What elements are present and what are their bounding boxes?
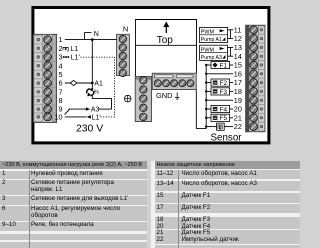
Top arrow [163, 22, 169, 34]
dashed tap symbol terminal 3 [63, 56, 69, 58]
terminal numbers 11-22 [234, 25, 242, 131]
wires PWM A3 to 13/14 [228, 47, 234, 56]
svg-text:3: 3 [59, 53, 63, 62]
svg-text:Pump A1: Pump A1 [201, 37, 222, 43]
label GND [156, 91, 179, 100]
terminal block X1 (left, terminals 1-10) [33, 34, 56, 122]
svg-text:22: 22 [234, 122, 242, 131]
svg-text:GND: GND [156, 91, 172, 100]
sensor box F3 [205, 88, 233, 96]
wire terminal 16 [205, 73, 233, 75]
wire terminal 10 [65, 116, 87, 118]
svg-text:11: 11 [234, 25, 242, 34]
sensor ground bus [196, 65, 206, 129]
svg-text:21: 21 [234, 113, 242, 122]
wire terminal 9 to A3 [69, 108, 87, 110]
wire pump A1 to A3 rail [92, 96, 111, 109]
svg-text:20: 20 [234, 105, 242, 114]
terminal block X2 (right, terminals 11-22) [246, 25, 265, 132]
label L1' [71, 55, 80, 62]
wire terminal 6 [65, 82, 93, 84]
enclosure frame [33, 8, 269, 143]
svg-text:N: N [123, 25, 128, 34]
svg-text:7: 7 [59, 87, 63, 96]
svg-text:PWM: PWM [201, 30, 215, 36]
svg-text:1: 1 [59, 35, 63, 44]
wire N drop to pump A1 [91, 40, 93, 89]
sensor box F5 [205, 114, 233, 122]
label Sensor [211, 132, 243, 143]
pump A1 symbol [87, 88, 94, 97]
junction dot [91, 82, 94, 85]
svg-text:19: 19 [234, 96, 242, 105]
svg-text:230 V: 230 V [76, 124, 103, 135]
svg-text:F2: F2 [220, 80, 228, 87]
svg-text:Pump A3: Pump A3 [201, 55, 222, 61]
controller body outline [136, 20, 197, 77]
Top label [157, 35, 174, 46]
svg-text:18: 18 [234, 87, 242, 96]
label L1' [92, 114, 101, 121]
junction on N wire [91, 38, 94, 41]
sensor box F2 [205, 79, 233, 87]
label A1 [94, 81, 103, 88]
impulse sensor box (terminal 22) [205, 123, 233, 130]
svg-text:PWM: PWM [201, 47, 215, 53]
legend table right: low voltage [155, 161, 301, 248]
svg-text:F4: F4 [220, 106, 228, 113]
terminal block N (center) [117, 34, 130, 75]
earth screw symbol [124, 95, 131, 102]
mains symbol terminal 2 [63, 47, 68, 51]
wires PWM A1 to 11/12 [228, 30, 234, 39]
svg-text:16: 16 [234, 69, 242, 78]
svg-text:L1': L1' [92, 114, 101, 121]
svg-text:4: 4 [59, 61, 63, 70]
svg-text:A3: A3 [91, 107, 100, 114]
X1 screws [34, 36, 56, 121]
node N tap [85, 33, 92, 40]
gap sliver between tables [151, 161, 155, 248]
terminal block GND (horizontal) [152, 73, 196, 89]
svg-text:F5: F5 [220, 115, 228, 122]
wire L1' dashed (row3 to row10 loop) [81, 57, 115, 117]
svg-text:15: 15 [234, 61, 242, 70]
PWM box pump A1 [200, 27, 228, 43]
label N [94, 31, 99, 38]
svg-text:Top: Top [157, 35, 174, 46]
svg-text:F1: F1 [220, 62, 228, 69]
relay contact 9-10 [65, 109, 70, 115]
label % [94, 89, 99, 95]
sensor box F4 [205, 105, 233, 113]
label 230 V [76, 124, 103, 135]
terminal numbers 1-10 [54, 35, 62, 121]
svg-text:10: 10 [54, 113, 62, 122]
svg-text:Sensor: Sensor [211, 132, 243, 143]
svg-text:F3: F3 [220, 89, 228, 96]
svg-text:L1: L1 [70, 46, 78, 53]
label N (block) [123, 25, 128, 34]
svg-text:N: N [94, 31, 99, 38]
terminal block center-bottom [135, 76, 151, 121]
arrow from L1' [87, 115, 91, 118]
sensor box F1 [205, 61, 233, 69]
Top panel [136, 44, 197, 46]
svg-text:5: 5 [59, 70, 63, 79]
svg-text:A1: A1 [94, 81, 103, 88]
label A3 [91, 107, 100, 114]
svg-text:6: 6 [59, 79, 63, 88]
arrow to A3 [86, 107, 90, 110]
svg-text:17: 17 [234, 78, 242, 87]
legend table left: 230V loads [0, 161, 147, 248]
svg-text:L1': L1' [71, 55, 80, 62]
wire A3 to rail [98, 108, 111, 110]
wire terminal 19 [205, 99, 233, 101]
svg-text:13: 13 [234, 43, 242, 52]
PWM box pump A3 [200, 45, 228, 61]
label L1 [70, 46, 78, 53]
fuse diamond on wire 6 [70, 80, 77, 85]
wire N (terminal 1) [65, 39, 117, 41]
svg-text:%: % [94, 89, 99, 95]
svg-text:14: 14 [234, 52, 242, 61]
svg-text:12: 12 [234, 34, 242, 43]
svg-text:2: 2 [59, 44, 63, 53]
